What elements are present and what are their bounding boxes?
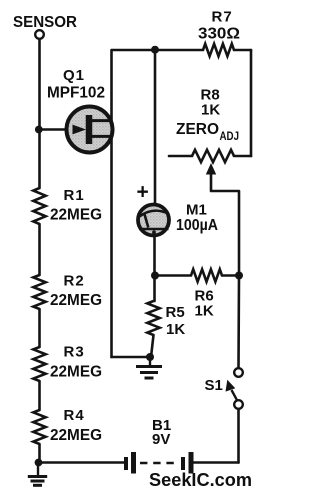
wire top rail — [112, 49, 203, 52]
wire bottom rail left — [40, 461, 125, 464]
svg-text:R7: R7 — [212, 9, 233, 26]
resistor R5 1K — [147, 301, 159, 335]
svg-text:+: + — [137, 181, 149, 204]
wire Q1 source to ground node — [112, 356, 151, 359]
switch S1 top contact — [234, 368, 243, 377]
M1 needle — [144, 214, 148, 228]
B1 cell 2 short plate — [181, 457, 185, 470]
svg-text:R4: R4 — [64, 407, 85, 424]
node: meter bottom junction — [151, 272, 159, 280]
wire Q1 source down — [110, 138, 113, 357]
svg-text:22MEG: 22MEG — [50, 292, 102, 309]
wire meter top — [154, 50, 157, 204]
wire meter bottom — [153, 236, 156, 301]
wire bottom rail right — [194, 461, 239, 464]
wire sensor vertical — [38, 40, 41, 189]
resistor R2 22MEG — [33, 275, 45, 309]
B1 dashed link — [140, 462, 179, 465]
wire Q1 drain — [110, 50, 113, 120]
wire R8 left stub — [169, 155, 192, 158]
Q1 channel bar — [86, 115, 93, 144]
switch S1 blade arrowhead — [226, 380, 236, 392]
wire — [38, 444, 41, 463]
svg-text:22MEG: 22MEG — [50, 427, 102, 444]
resistor R3 22MEG — [33, 347, 45, 381]
svg-text:9V: 9V — [152, 431, 170, 448]
svg-text:R1: R1 — [64, 187, 85, 204]
wire gate — [40, 128, 84, 131]
wire S1 to bottom rail — [237, 409, 240, 463]
wire R5 bottom — [151, 335, 154, 357]
wire R6 row — [155, 274, 191, 277]
battery B1 9V — [126, 452, 191, 474]
svg-text:330Ω: 330Ω — [198, 26, 240, 43]
svg-text:Q1: Q1 — [63, 67, 85, 84]
Q1 drain lead — [91, 119, 112, 122]
svg-text:R3: R3 — [64, 344, 85, 361]
node: rail junction — [151, 46, 159, 54]
wire R6 right — [222, 274, 239, 277]
svg-text:1K: 1K — [166, 321, 185, 338]
node: R5 ground junction — [146, 353, 154, 361]
svg-text:1K: 1K — [195, 303, 214, 320]
transistor Q1 MPF102 (JFET) — [67, 107, 113, 153]
Q1 gate arrowhead — [73, 125, 87, 135]
ground (center, below R5) — [136, 357, 162, 378]
potentiometer R8 1K ZERO ADJ — [192, 150, 234, 162]
svg-text:ADJ: ADJ — [220, 129, 240, 143]
resistor R1 22MEG — [33, 188, 45, 224]
B1 cell 1 short plate — [124, 457, 128, 470]
M1 chord line — [139, 228, 169, 230]
wire R8 wiper down-right — [211, 170, 239, 276]
M1 pivot dot — [152, 230, 156, 234]
node: gate junction — [35, 126, 43, 134]
wire R8 right — [234, 155, 251, 158]
svg-text:R2: R2 — [64, 273, 85, 290]
resistor R7 330ohm — [203, 44, 234, 56]
svg-text:SENSOR: SENSOR — [13, 14, 77, 31]
ground (left, below R4) — [28, 463, 47, 486]
M1 scale arc — [140, 211, 169, 217]
switch S1 blade — [232, 390, 237, 400]
svg-text:R5: R5 — [166, 304, 185, 321]
switch S1 bottom contact — [234, 400, 243, 409]
svg-text:22MEG: 22MEG — [50, 364, 102, 381]
svg-text:S1: S1 — [205, 377, 223, 394]
svg-text:ZERO: ZERO — [176, 121, 219, 138]
node: R6 right junction — [235, 272, 243, 280]
wire — [38, 381, 41, 410]
wire left column between resistors — [38, 224, 41, 275]
wire to S1 — [237, 276, 240, 368]
svg-text:SeekIC.com: SeekIC.com — [149, 469, 252, 490]
svg-text:22MEG: 22MEG — [50, 207, 102, 224]
wire right vertical from rail — [250, 50, 253, 156]
resistor R6 1K — [191, 269, 222, 281]
wire — [38, 309, 41, 347]
meter M1 100uA — [138, 205, 169, 236]
wire top rail right of R7 — [234, 49, 251, 52]
svg-text:100µA: 100µA — [176, 217, 218, 234]
potentiometer R8 wiper arrow — [206, 163, 216, 175]
B1 cell 1 long plate — [131, 452, 136, 474]
svg-text:MPF102: MPF102 — [47, 85, 105, 102]
svg-text:1K: 1K — [201, 102, 220, 119]
node: bottom-left junction — [35, 459, 43, 467]
B1 cell 2 long plate — [189, 452, 194, 474]
Q1 source lead — [91, 135, 112, 138]
sensor input terminal — [35, 30, 44, 39]
resistor R4 22MEG — [33, 410, 45, 444]
svg-text:M1: M1 — [186, 202, 207, 219]
